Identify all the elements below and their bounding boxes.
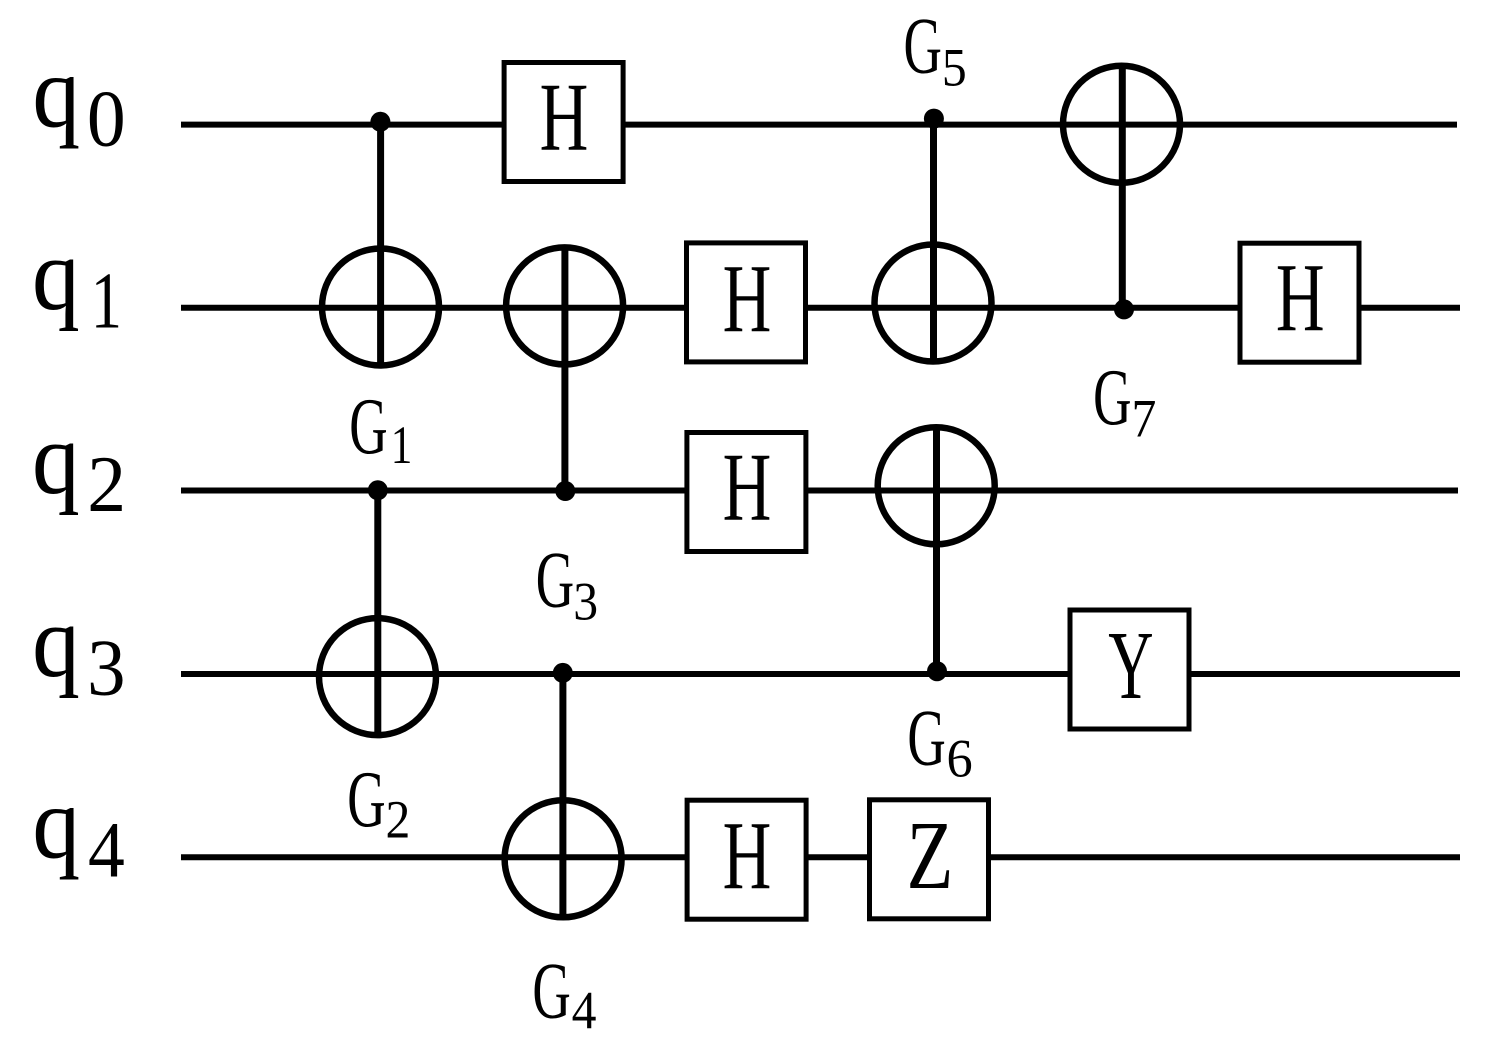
svg-text:4: 4 (572, 982, 597, 1041)
svg-text:5: 5 (942, 38, 967, 97)
CNOT G1 control-target vertical wire (377, 122, 384, 366)
svg-text:H: H (540, 65, 589, 172)
H gate box on q1 (middle) (687, 243, 806, 362)
svg-text:H: H (723, 246, 772, 353)
svg-text:2: 2 (87, 441, 126, 529)
gate label G5 (903, 1, 966, 98)
gate label G7 (1093, 352, 1156, 449)
Y gate box on q3 (1070, 610, 1189, 729)
CNOT G7 control dot on q1 (1114, 299, 1134, 319)
H gate box on q2 (687, 433, 806, 552)
qubit label q2 (32, 403, 126, 530)
svg-text:7: 7 (1131, 390, 1156, 449)
Z gate box on q4 (870, 800, 989, 919)
CNOT G7 control-target vertical wire (1119, 65, 1126, 309)
svg-text:H: H (723, 435, 772, 542)
CNOT G5 target circle on q1 (875, 245, 992, 362)
svg-text:q: q (32, 767, 80, 880)
CNOT G7 target circle on q0 (1063, 66, 1180, 183)
CNOT G2 target circle on q3 (319, 618, 436, 735)
wire q1 (181, 305, 1460, 311)
svg-text:1: 1 (91, 256, 122, 345)
svg-text:G: G (903, 1, 941, 90)
qubit label q3 (32, 586, 125, 712)
svg-text:G: G (349, 381, 387, 470)
wire q4 (181, 854, 1460, 860)
qubit label q4 (32, 767, 124, 894)
svg-text:0: 0 (87, 75, 126, 163)
svg-text:2: 2 (385, 791, 410, 850)
svg-text:G: G (1093, 352, 1131, 441)
CNOT G4 target circle on q4 (505, 800, 622, 917)
gate label G2 (347, 754, 410, 850)
CNOT G4 control-target vertical wire (559, 673, 566, 917)
svg-text:3: 3 (87, 623, 125, 712)
gate label G4 (532, 946, 596, 1041)
CNOT G5 control-target vertical wire (930, 119, 937, 362)
CNOT G2 control dot on q2 (368, 480, 388, 500)
svg-text:6: 6 (947, 729, 973, 789)
svg-text:4: 4 (88, 806, 125, 894)
qubit label q0 (32, 36, 125, 163)
svg-text:G: G (536, 535, 574, 624)
svg-text:H: H (1276, 245, 1325, 352)
H gate box on q1 (right) (1240, 243, 1359, 362)
svg-text:G: G (347, 754, 385, 843)
CNOT G5 control dot on q0 (924, 109, 944, 129)
CNOT G6 control dot on q3 (927, 661, 947, 681)
CNOT G2 control-target vertical wire (374, 490, 381, 734)
wire q0 (181, 122, 1457, 128)
H gate box on q0 (504, 63, 623, 182)
wire q2 (181, 488, 1458, 494)
svg-text:Y: Y (1108, 611, 1153, 719)
svg-text:q: q (32, 403, 80, 516)
gate label G1 (349, 381, 412, 475)
svg-text:q: q (32, 219, 80, 332)
gate label G3 (536, 535, 598, 632)
gate label G6 (907, 693, 972, 789)
CNOT G4 control dot on q3 (553, 663, 573, 683)
svg-text:H: H (723, 803, 772, 910)
svg-text:G: G (907, 693, 945, 782)
H gate box on q4 (687, 800, 806, 919)
qubit label q1 (32, 219, 122, 345)
CNOT G6 control-target vertical wire (933, 428, 940, 671)
svg-text:q: q (32, 36, 80, 149)
svg-text:G: G (532, 946, 570, 1035)
svg-text:1: 1 (391, 414, 413, 475)
CNOT G3 control-target vertical wire (561, 247, 568, 491)
CNOT G1 control dot on q0 (370, 112, 390, 132)
svg-text:Z: Z (907, 802, 954, 910)
CNOT G3 target circle on q1 (506, 247, 623, 364)
CNOT G3 control dot on q2 (555, 481, 575, 501)
CNOT G1 target circle on q1 (322, 249, 439, 366)
CNOT G6 target circle on q2 (878, 427, 995, 544)
wire q3 (181, 671, 1460, 677)
svg-text:3: 3 (573, 573, 598, 632)
svg-text:q: q (32, 586, 80, 699)
